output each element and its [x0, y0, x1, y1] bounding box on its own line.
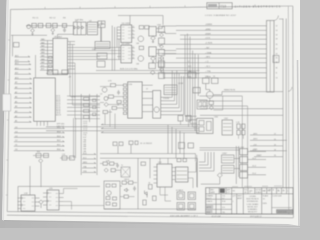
wire cluster drops — [105, 110, 115, 129]
wire conn lower e7 — [250, 150, 287, 152]
svg-text:D 4207-008: D 4207-008 — [273, 196, 282, 198]
wire analog links — [100, 164, 137, 197]
drawing number cell — [273, 196, 282, 198]
connector pin labels — [276, 25, 278, 79]
resistor R4 — [139, 26, 143, 29]
svg-text:1: 1 — [278, 190, 279, 192]
svg-text:XTAL: XTAL — [92, 48, 96, 51]
svg-text:11 D4: 11 D4 — [83, 130, 87, 132]
wire U8 top to osc — [58, 26, 74, 39]
revision cell fill B — [206, 210, 212, 214]
wire reset net — [11, 35, 47, 56]
svg-text:D0 11: D0 11 — [56, 96, 60, 98]
buffer U2 — [87, 22, 97, 35]
svg-text:MRD: MRD — [83, 162, 88, 164]
svg-text:20: 20 — [276, 44, 278, 46]
U4 pin number labels — [132, 26, 134, 38]
svg-text:T.M.: T.M. — [222, 212, 226, 214]
svg-text:EF1: EF1 — [41, 65, 44, 67]
svg-text:A12: A12 — [15, 67, 18, 70]
svg-text:12 D3: 12 D3 — [83, 128, 87, 130]
resistor R19 — [103, 162, 107, 165]
staircase bus A — [161, 71, 184, 115]
svg-text:A9: A9 — [15, 81, 17, 84]
analog section top rail — [100, 158, 197, 187]
wire U8 right drops — [70, 42, 100, 119]
wire q11 drop — [201, 178, 220, 185]
driver U11 — [153, 91, 161, 119]
vertical rail x138 — [137, 158, 139, 209]
border frame right outer — [292, 6, 295, 218]
svg-text:+ Q: + Q — [205, 61, 209, 63]
svg-text:A1: A1 — [15, 120, 17, 123]
ROM U9 — [34, 78, 56, 121]
svg-text:U8 1802: U8 1802 — [54, 36, 63, 38]
title block header rule — [206, 193, 293, 195]
oscillator section labels — [33, 18, 93, 23]
svg-text:+5MEM: +5MEM — [205, 24, 212, 26]
CPU U8 — [53, 38, 68, 74]
svg-text:.01: .01 — [148, 183, 150, 185]
IC U19 — [21, 195, 35, 211]
svg-text:A6: A6 — [15, 96, 17, 99]
svg-text:D2 13: D2 13 — [56, 99, 60, 101]
address bus labels — [15, 54, 18, 122]
resistor R35 — [179, 143, 185, 149]
svg-text:LS138: LS138 — [178, 83, 183, 85]
svg-text:11: 11 — [132, 37, 134, 39]
svg-text:2.097 MHz: 2.097 MHz — [75, 20, 83, 22]
transistor Q2 — [51, 28, 55, 32]
wire mid m2 — [200, 100, 243, 102]
U19 left pins — [18, 198, 22, 209]
svg-text:24: 24 — [276, 53, 278, 55]
capacitor C4 — [117, 90, 120, 95]
revision marks above block — [232, 185, 282, 188]
capacitor C3 — [63, 27, 66, 32]
copyright text block — [246, 196, 259, 214]
U10 left pin pads — [123, 84, 126, 114]
wire net clk4 — [156, 53, 176, 55]
DIP S1 — [177, 192, 185, 200]
svg-text:D2: D2 — [15, 140, 17, 142]
wire osc net — [26, 25, 73, 27]
svg-text:+5 RUN: +5 RUN — [205, 43, 213, 45]
bus label column — [83, 121, 87, 153]
svg-text:1: 1 — [287, 191, 288, 193]
wire bus a3 — [180, 38, 267, 40]
svg-text:A14: A14 — [15, 59, 18, 62]
svg-text:24: 24 — [274, 139, 276, 141]
svg-text:R2 C2: R2 C2 — [50, 18, 57, 20]
data bus labels — [15, 127, 61, 151]
bus join vertical A — [35, 55, 37, 78]
svg-text:MA1: MA1 — [41, 41, 45, 44]
svg-text:C14: C14 — [62, 154, 65, 156]
wire conn lower e5 — [250, 139, 287, 141]
svg-text:SC0: SC0 — [83, 153, 87, 155]
U20 left pins — [43, 193, 47, 205]
U20 right pins — [59, 194, 64, 206]
svg-text:D0: D0 — [15, 149, 17, 151]
svg-text:T1: T1 — [121, 165, 123, 167]
wire cluster links — [100, 85, 123, 112]
svg-text:1K .01 2N2222: 1K .01 2N2222 — [140, 143, 152, 145]
wire q10 — [206, 84, 222, 95]
svg-text:MA3: MA3 — [41, 48, 45, 51]
U9 pull-up box A — [47, 70, 58, 75]
svg-text:15 D0: 15 D0 — [83, 121, 87, 123]
svg-text:11: 11 — [276, 72, 278, 74]
wire bus a1 — [176, 29, 267, 31]
transistor Q15 — [104, 97, 108, 101]
svg-text:LS02: LS02 — [224, 118, 228, 120]
pull-up pair B — [186, 116, 191, 122]
svg-text:+MRD: +MRD — [205, 29, 211, 31]
U16 output wires — [248, 152, 266, 175]
svg-text:22: 22 — [146, 89, 148, 91]
svg-text:D.K.: D.K. — [222, 207, 226, 209]
ground — [152, 61, 154, 63]
vertical rail V1 — [241, 96, 243, 188]
transistor Q1 — [31, 29, 35, 33]
wire mid m3 — [200, 105, 248, 107]
svg-text:A3: A3 — [15, 110, 17, 113]
mid net labels — [188, 61, 192, 78]
wire net clk1 — [156, 26, 176, 29]
svg-text:CRS: CRS — [268, 190, 271, 192]
svg-text:7404: 7404 — [100, 23, 104, 25]
gate cluster U18 — [222, 165, 235, 173]
resistor R9 — [103, 111, 108, 114]
resistor R6 — [139, 46, 143, 49]
svg-text:8 D7: 8 D7 — [83, 137, 86, 139]
zone tick marks top border — [45, 5, 255, 9]
gate U6 — [149, 27, 156, 37]
transistor Q11 — [217, 173, 222, 178]
resistor R34 — [209, 101, 213, 105]
svg-text:D5 17: D5 17 — [56, 105, 60, 107]
svg-text:LS367: LS367 — [222, 153, 227, 155]
svg-text:SCALE: SCALE — [256, 191, 262, 194]
side parts column — [93, 99, 96, 116]
svg-text:+ TPA: + TPA — [205, 70, 211, 73]
bus arrows left — [101, 124, 103, 133]
resistor R33 — [106, 197, 110, 200]
svg-text:4207-008-1A SHEET 1 OF 2: 4207-008-1A SHEET 1 OF 2 — [170, 214, 198, 217]
zone tick marks left border — [6, 40, 10, 195]
capacitor C2 — [53, 23, 58, 27]
svg-text:26: 26 — [276, 58, 278, 60]
wire drop a — [30, 163, 41, 195]
svg-text:30: 30 — [276, 67, 278, 69]
U8 left pins — [40, 41, 53, 71]
transistor Q3 — [138, 36, 144, 42]
pin pad a — [49, 56, 52, 58]
svg-text:R1 C1: R1 C1 — [33, 18, 40, 20]
DIP S3 — [188, 192, 196, 200]
DIP S4 — [188, 203, 196, 211]
transistor Q13 — [107, 191, 111, 195]
svg-text:D3: D3 — [15, 136, 17, 138]
top header label box — [207, 3, 232, 9]
logo mark — [220, 189, 225, 193]
U5 pin number labels — [132, 47, 134, 60]
jumper block J2 — [14, 43, 20, 48]
gate U13 — [193, 88, 200, 93]
wire conn lower e2 — [200, 108, 283, 110]
svg-text:MA2: MA2 — [41, 45, 45, 48]
svg-text:10 D5: 10 D5 — [83, 132, 87, 134]
wire bus a7 — [176, 57, 267, 59]
capacitor C5 — [44, 154, 49, 158]
svg-text:4207-008: 4207-008 — [278, 211, 287, 213]
svg-text:A2: A2 — [15, 115, 17, 118]
id bar rule — [272, 207, 292, 209]
connector J1 body — [267, 21, 275, 93]
svg-text:A10: A10 — [15, 76, 18, 79]
wire conn lower e1 — [222, 91, 283, 93]
svg-text:12: 12 — [132, 26, 134, 28]
svg-text:LOGIC BOARD: LOGIC BOARD — [247, 203, 260, 206]
pull-up stubs — [181, 121, 189, 127]
dark id bar — [277, 210, 293, 213]
wire top feed — [118, 16, 163, 25]
svg-text:A5: A5 — [15, 100, 17, 103]
svg-text:D5: D5 — [15, 127, 17, 129]
gate U7 — [149, 47, 156, 57]
svg-text:1/1: 1/1 — [263, 199, 265, 201]
svg-text:18: 18 — [276, 39, 278, 41]
transistor Q16 — [209, 106, 213, 110]
U8 right pin wires — [68, 42, 118, 70]
svg-text:A11: A11 — [15, 72, 18, 75]
svg-text:16: 16 — [276, 35, 278, 37]
border frame left — [7, 9, 10, 211]
wire staircase C — [199, 152, 214, 171]
svg-text:BD2: BD2 — [57, 140, 61, 142]
resistor R16 — [112, 184, 116, 187]
resistor R25 — [143, 200, 146, 205]
rail end labels — [274, 134, 276, 158]
svg-text:4207-008 C2: 4207-008 C2 — [250, 216, 262, 218]
U9 pull-up box B — [62, 70, 69, 74]
resistor R29 — [117, 101, 121, 104]
inverter U1 — [73, 22, 86, 35]
revision texts — [207, 195, 243, 214]
resistor R36 — [188, 143, 194, 148]
lower wire labels — [253, 133, 262, 157]
transformer T1 — [121, 167, 130, 177]
resistor R15 — [106, 184, 110, 187]
wire bus a5 — [176, 48, 267, 50]
IC U20 — [47, 190, 59, 210]
wire u21 drop — [160, 187, 171, 201]
connector tap box — [273, 56, 279, 63]
U4 left pin stubs — [117, 27, 121, 39]
gate column U16 — [240, 149, 248, 178]
svg-text:D1: D1 — [15, 145, 17, 147]
vertical drop wires right of center — [185, 34, 198, 97]
svg-text:S1 BAUD: S1 BAUD — [176, 189, 184, 192]
wire r13 net — [33, 156, 72, 159]
svg-text:A7: A7 — [15, 91, 17, 94]
scale cell text — [263, 195, 269, 206]
wire bus d2 — [161, 57, 267, 73]
wire to divider — [86, 21, 102, 42]
wire u20 link — [64, 189, 105, 210]
LED D2 — [145, 191, 148, 198]
svg-text:MAT: MAT — [263, 190, 266, 193]
svg-text:13 D2: 13 D2 — [83, 126, 87, 128]
comparator U24 — [97, 61, 105, 67]
bus pair vertical — [74, 118, 76, 158]
border frame outer top — [11, 6, 293, 9]
wire bus d1 — [159, 57, 267, 68]
svg-text:MA6: MA6 — [41, 58, 45, 61]
wire bus a2 — [180, 34, 267, 36]
svg-text:R.W.: R.W. — [222, 201, 226, 203]
decoder U14 — [197, 118, 213, 133]
crystal Y1 — [27, 25, 31, 29]
header strip text — [210, 189, 288, 194]
resistor ladder RP2 rails — [81, 94, 97, 175]
resistor R3 — [62, 24, 66, 28]
resistor R22 — [122, 181, 126, 184]
svg-text:CE 20: CE 20 — [56, 111, 61, 113]
UART U21 — [157, 164, 172, 187]
wire bus drops — [168, 125, 184, 158]
capacitor C8 — [116, 163, 119, 168]
U5 left pin stubs — [117, 48, 121, 60]
capacitor C9 — [133, 186, 136, 191]
wire mid rail — [100, 145, 196, 162]
wire conn lower e3 — [200, 114, 283, 116]
gate U7b — [149, 63, 156, 69]
oscillator module U3 — [95, 42, 110, 49]
svg-text:BUS CLK 4.91 MHz: BUS CLK 4.91 MHz — [120, 69, 138, 71]
DIP S2 — [177, 203, 185, 211]
signal stub labels — [83, 153, 88, 173]
ground — [152, 40, 154, 42]
transistor Q4 — [151, 36, 156, 40]
buffer U15 — [222, 120, 233, 135]
wire bus a0 — [176, 25, 267, 27]
svg-text:8-4-77: 8-4-77 — [207, 198, 212, 200]
pull-up pair A — [178, 116, 183, 122]
brace mid — [288, 87, 292, 91]
wire u21 top — [160, 158, 168, 164]
svg-text:LS32: LS32 — [240, 147, 244, 149]
svg-text:28: 28 — [276, 62, 278, 64]
connector bus rail A — [282, 19, 284, 189]
title block outer frame — [206, 188, 293, 214]
U4 right pin stubs — [132, 28, 135, 39]
wire u22 out — [188, 162, 196, 188]
wire net clk2 — [156, 32, 176, 34]
svg-text:28: 28 — [274, 149, 276, 151]
pin pad b — [49, 61, 52, 63]
header cell specks — [227, 189, 284, 194]
svg-text:D7 19: D7 19 — [56, 109, 60, 111]
resistor R32 — [177, 159, 181, 162]
svg-text:SC1: SC1 — [83, 157, 87, 159]
counter U4 — [121, 25, 132, 43]
buffer column gates — [159, 27, 165, 79]
border frame bottom inner — [7, 212, 293, 215]
svg-text:+CLK: +CLK — [205, 38, 211, 40]
svg-text:2: 2 — [283, 190, 284, 192]
svg-text:MA5: MA5 — [41, 55, 45, 58]
capacitor C6 — [70, 156, 75, 160]
svg-text:BD0: BD0 — [57, 149, 61, 151]
svg-text:Q2: Q2 — [100, 94, 102, 96]
svg-text:30: 30 — [274, 155, 276, 157]
capacitor C12 — [135, 141, 138, 145]
svg-text:-MWR: -MWR — [205, 33, 211, 35]
svg-text:MA0: MA0 — [41, 38, 45, 41]
resistor R21 — [111, 169, 115, 172]
svg-text:LS00: LS00 — [214, 117, 218, 119]
transistor Q8 — [104, 103, 108, 107]
data bus fanout lines — [14, 127, 65, 150]
transistor Q7 — [102, 87, 107, 92]
bus line ph1 — [96, 70, 200, 72]
svg-text:2716: 2716 — [72, 97, 76, 99]
resistor R8 — [109, 95, 114, 98]
capacitor C10 — [149, 185, 153, 190]
svg-text:A4: A4 — [15, 105, 17, 108]
filter block FL1 — [197, 100, 207, 109]
svg-text:- INT: - INT — [205, 47, 210, 49]
transistor Q6 — [151, 57, 156, 61]
svg-text:1N914: 1N914 — [124, 179, 129, 181]
resistor R28 — [129, 141, 133, 145]
svg-text:22: 22 — [274, 134, 276, 136]
U9 bottom exit wires — [37, 121, 48, 126]
resistor R26 — [113, 142, 117, 146]
svg-text:CD4050: CD4050 — [163, 98, 169, 100]
svg-text:U5 LS93: U5 LS93 — [122, 43, 131, 45]
svg-text:22: 22 — [276, 48, 278, 50]
svg-text:11: 11 — [132, 57, 134, 59]
border frame right inner — [287, 6, 290, 214]
transistor Q14 — [104, 168, 108, 172]
svg-text:14 D1: 14 D1 — [83, 123, 87, 125]
wire mid m1 — [200, 95, 243, 97]
svg-text:D1 12: D1 12 — [56, 97, 60, 99]
resistor R18 — [106, 202, 110, 205]
transistor Q12 — [39, 159, 43, 163]
analog section bottom rail — [104, 208, 196, 210]
svg-text:A13: A13 — [15, 62, 18, 65]
svg-text:A8: A8 — [15, 86, 17, 89]
horizontal bus lines center — [46, 125, 200, 133]
svg-text:DWG: DWG — [263, 203, 268, 205]
svg-text:CITIZEN ELECTRONICS: CITIZEN ELECTRONICS — [235, 4, 282, 8]
diode D1 — [124, 188, 129, 191]
resistor pack RP1 — [237, 124, 245, 135]
wire bus a6 — [162, 53, 267, 55]
U9 pin name column — [56, 96, 61, 117]
U19 right pins — [35, 198, 40, 206]
svg-text:D4: D4 — [15, 131, 17, 133]
brace top — [274, 16, 283, 21]
svg-text:A15: A15 — [15, 54, 18, 57]
svg-text:LS04: LS04 — [157, 25, 161, 27]
svg-text:SCHEMATIC: SCHEMATIC — [248, 208, 259, 211]
bus wire labels — [205, 24, 213, 78]
